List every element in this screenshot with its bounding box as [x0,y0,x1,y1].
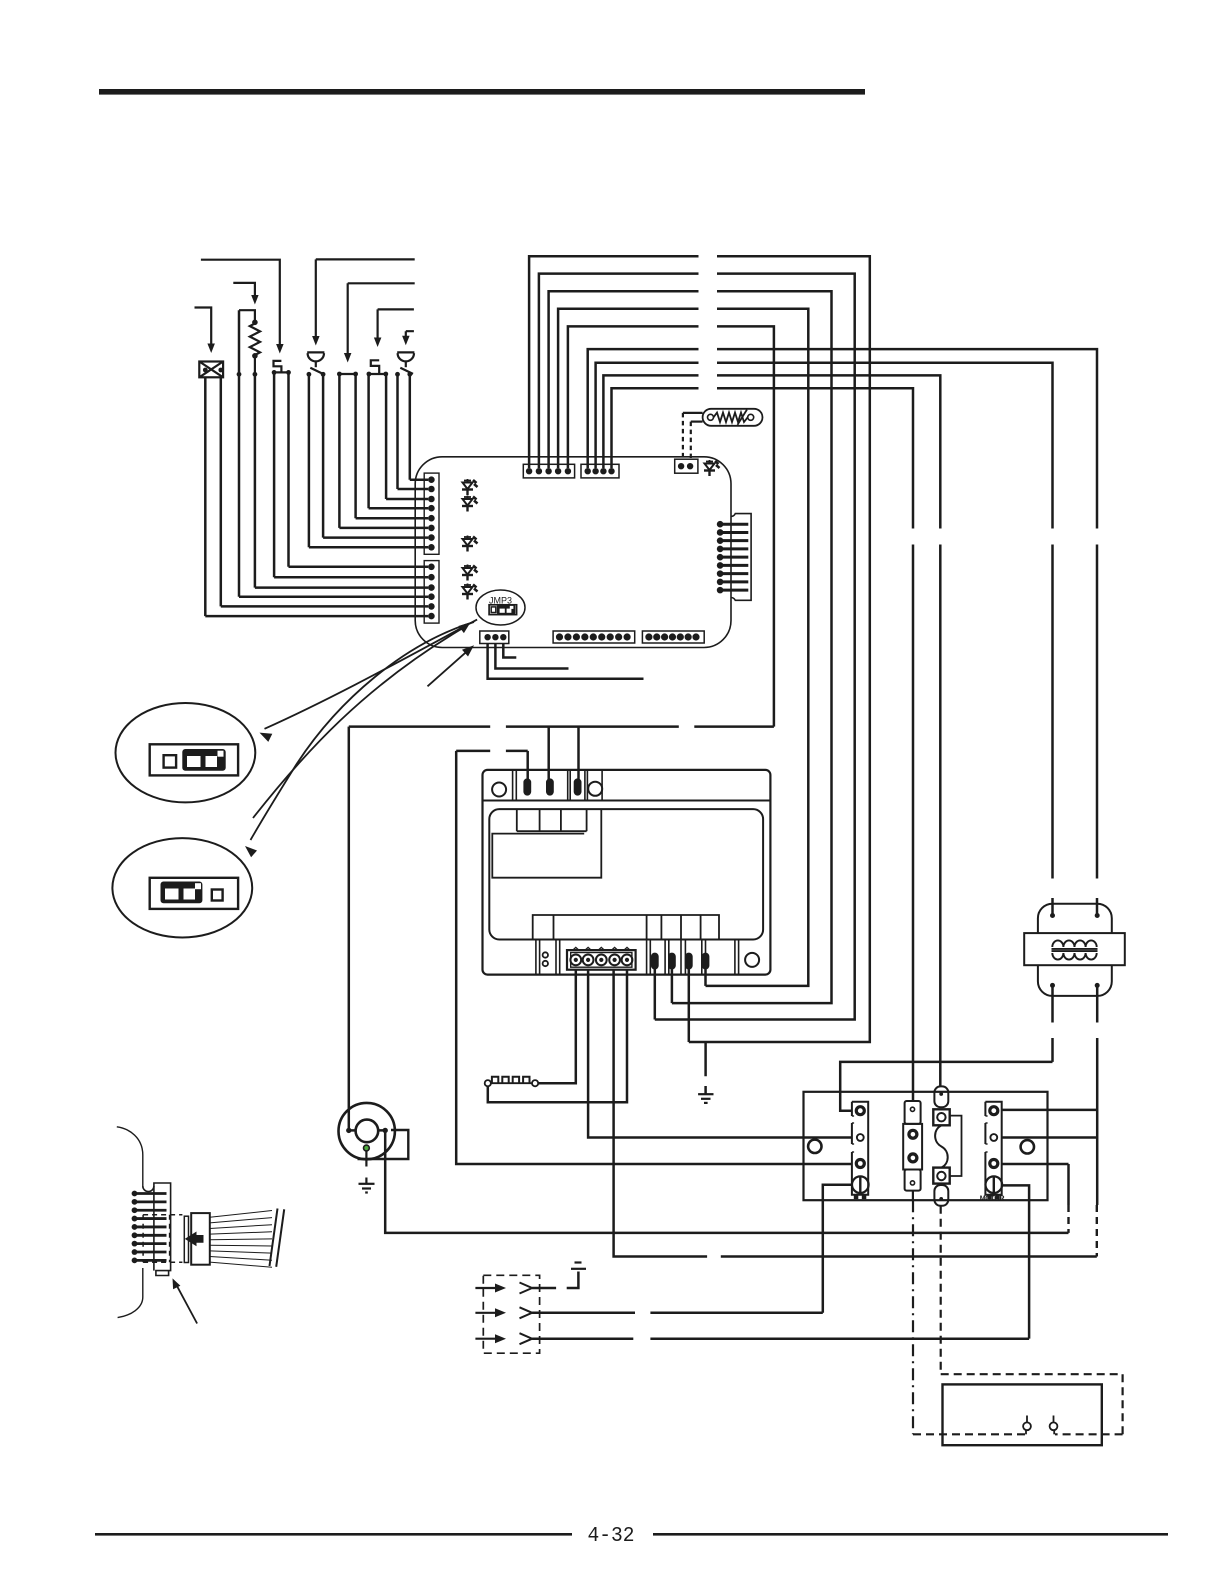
wire V1 lead B [220,377,223,606]
wire PS1-A to J1 pin8 [309,546,428,549]
ground branch from S4 wire [704,1042,707,1094]
mating plug body [184,1216,188,1262]
LED D2 [462,496,478,512]
harness break slashes [270,1209,278,1267]
wire W9: J4.4 to fuse block middle pole top [612,388,914,1102]
wire blower line riser [1067,1164,1070,1205]
page header rule [99,89,865,95]
wire right pole top to transformer drop [1002,1109,1097,1112]
contactor pole P1 (left) [852,1102,868,1195]
LED D3 [462,536,478,552]
wire B1 branch to module slot S2b [577,727,580,780]
wire blower left terminal [349,1129,356,1132]
wire TB1.2 to contactor left pole mid [588,970,852,1138]
module slot S4 [686,954,692,969]
sensor terminal pair J5 [339,373,355,375]
contactor K1 mounting hole left [808,1140,821,1153]
wire PS2-B to J1 pin1 [410,478,428,481]
wire W3: J3.3 to module slot S2 [549,291,832,1003]
wire J5 lead B [354,374,357,518]
wire S1 lead A [273,372,276,577]
LC1 contact A [1023,1422,1031,1430]
dashed control run from fuse F1 bottom [940,1206,942,1374]
wire S2 lead B [385,374,388,499]
LC1 contact B [1050,1422,1058,1430]
wire R1-A to J2 pin4 [239,595,428,598]
footer rule left [95,1533,572,1536]
ignition module M1 outline [483,770,771,975]
connector J10 (7-pin, board bottom) [642,631,704,643]
module M1 terminal cells bottom [533,915,719,940]
wire right pole mid to transformer drop [1002,1136,1097,1139]
wire module slot S4 to W1 [688,968,691,1042]
connector J9 (9-pin, board bottom) [553,631,635,643]
wire PS1-B to J1 pin7 [323,536,428,539]
flame sensor resistor R1 [239,310,255,322]
LED D6 [704,460,720,476]
arrow to flame sensor R1 [233,283,255,297]
wire field GND to ground [532,1272,578,1289]
module M1 relay cells [492,809,601,878]
curved arrow to callout E1 [265,620,478,729]
ground symbol GND2 [359,1183,375,1185]
connector J1 (8-pin, board left) [424,473,439,554]
wire T1 bottom-right drop [1096,985,1099,1205]
blower right terminal to contactor [383,1128,388,1133]
connector J8 (3-pin, board bottom) [480,631,509,644]
footer rule right [653,1533,1168,1536]
wire right pole screw to field L2 [1002,1185,1029,1338]
limit control box LC1 [943,1384,1102,1445]
harness wires fan [210,1211,272,1268]
wire field L2 to contactor [532,1337,1029,1340]
module M1 status holes [543,952,548,957]
wire W4: J3.4 to module slot S5 [558,309,808,986]
module M1 mounting hole bottom-right [745,953,759,967]
wire V1 lead A [204,377,207,616]
fuse holder P2 (middle pole) [903,1101,922,1191]
wire PS2 lead B [409,374,412,479]
terminal block TB1 (5 screws) [567,950,636,970]
LED D1 [462,479,478,495]
wire S2-A to J1 pin4 [369,507,429,510]
module M1 bottom strip dividers [536,940,739,975]
jumper detail callout E1 [115,703,255,802]
wire FL1 to J6 pin2 (dashed) [691,421,703,423]
flame-rod link FL1 (pill with resistor) [703,409,763,426]
wire PS2-A to J1 pin2 [398,488,429,491]
connector J4 (4-pin, board top) [581,464,619,478]
wire PS2 lead A [396,374,399,489]
arrow to pressure switch PS1 [316,259,415,337]
ground symbol GND3 [571,1268,586,1270]
field wiring box FW1 (dashed) [483,1275,539,1353]
module M1 mounting hole top-left [492,783,506,797]
gas valve V1 (bowtie symbol) [199,362,223,378]
module M1 top strip dividers [513,770,603,801]
limit switch S1 (flag symbol) [274,361,282,373]
wire R1 lead B [254,374,257,587]
curved arrow to callout E2 [251,622,475,840]
module M1 top strip [483,800,771,802]
blower motor BM1 [339,1103,409,1159]
straight arrow to J8 [428,651,468,686]
wire module slot S5 to W4 [704,968,707,986]
arrow to limit switch S1 [201,260,280,346]
igniter HSI1 [532,1080,538,1086]
fuse F1 bracket [950,1116,962,1176]
wire PS1 lead A [308,374,311,547]
wire W6: J4.1 to transformer T1 secondary right [588,349,1097,915]
wire J8.3 stub [503,644,516,658]
module slot S1 [652,954,658,969]
wire W8: J4.3 to fuse F1 top [603,375,940,1086]
wire module slot S1 to W2 [654,968,657,1019]
arrow to pressure switch PS2 [406,331,414,337]
wire field L1 to contactor [532,1312,823,1315]
wire igniter left to TB1.5 [488,970,627,1102]
blower ground wire [364,1145,370,1151]
bus wire B2 [456,750,528,753]
contactor K1 mounting hole right [1021,1140,1034,1153]
ground symbol GND1 [698,1093,713,1095]
wire S1-A to J2 pin2 [274,576,428,579]
wire blower line riser dashed tail [1067,1205,1069,1233]
wire S1-B to J2 pin1 [289,566,429,569]
wire S2 lead A [367,374,370,508]
wire T1 drop dashed tail [1096,1205,1098,1257]
contactor K1 mounting plate [804,1092,1048,1200]
wire left pole screw to field L1 [823,1185,852,1313]
contactor pole P3 (right) [985,1102,1001,1195]
dashed control run from fuse block middle pole [912,1191,914,1201]
transformer T1 [1024,904,1125,996]
module slot S2 [669,954,675,969]
wire J5-B to J1 pin5 [356,517,429,520]
jumper detail callout E2 [112,838,252,937]
connector J2 (6-pin, board left) [424,561,439,624]
pressure switch PS2 [397,352,414,374]
LED D4 [462,565,478,581]
wire module slot S2 to W3 [671,968,674,1003]
harness panel edge (thin curve) [117,1127,143,1186]
straight arrow to JMP3 [253,628,463,818]
module slot S1b [547,780,553,795]
field line L1 entry [475,1312,496,1314]
svg-text:4-32: 4-32 [588,1525,635,1548]
wire W5: J3.5 to 24V bus [568,326,774,726]
wire W1: J3.1 to module slot S4 [529,256,870,1042]
module M1 inner cover [489,809,763,939]
wire S1 lead B [287,372,290,566]
wire W7: J4.2 to transformer T1 secondary left [596,363,1053,916]
wire B2 to module slot S0 [526,751,529,780]
connector J3 (5-pin, board top) [523,464,574,478]
wire S2-B to J1 pin3 [386,498,428,501]
wire right pole lower to blower line [1002,1163,1069,1166]
wire J5 lead A [338,374,341,528]
wire B2 to inducer circuit (left drop) [456,751,852,1164]
wire TB1.1 to igniter right [538,970,576,1083]
wire PS1 lead B [322,374,325,537]
wire R1 lead A [238,310,241,597]
wire R1-B to J2 pin3 [255,586,428,589]
arrow to gas valve V1 [195,308,212,346]
svg-text:MOTOR: MOTOR [980,1196,1005,1203]
rollout switch S2 (flag symbol) [371,360,379,374]
wire FL1 to J6 pin1 (dashed) [683,412,703,414]
wire V1-A to J2 pin6 [205,615,428,618]
wire J5-A to J1 pin6 [339,527,428,530]
wire B1 branch to module slot S1b [547,727,550,780]
wire TB1.4 to transformer drop [614,970,1097,1257]
wire T1 bottom-left to K1 bus (dash break) [1051,985,1054,1062]
wire B1 to blower motor [348,727,351,1128]
control board U1 outline [415,457,731,648]
arrow to terminal pair J5 [348,283,415,354]
wire J8.2 stub [495,644,568,669]
field line L2 entry [475,1338,496,1340]
connector J7 (9-pin edge connector, board right) [731,514,751,601]
pressure switch PS1 [307,352,324,374]
wire W2: J3.2 to module slot S1 [539,274,855,1020]
LED D5 [462,584,478,600]
fuse F1 (center, with holder clips) [933,1086,949,1205]
harness connector P10 pins [132,1191,138,1197]
field line GND entry [475,1287,496,1289]
module slot S0 [525,780,531,795]
arrow to harness connector [176,1284,197,1324]
module slot S5 [703,954,709,969]
wire J8.1 stub [488,644,644,679]
wire K1 line-side jumper bus [840,1062,1052,1111]
harness connector P10 body [143,1183,171,1276]
mating plug dashed outline [143,1215,182,1263]
wire V1-B to J2 pin5 [221,605,428,608]
plug insertion arrow [185,1232,204,1247]
arrow to rollout switch S2 [378,309,414,339]
connector J6 (2-pin, board top right) [675,459,698,473]
module slot S2b [575,780,581,795]
jumper JMP3 callout on board [476,590,525,625]
bus wire B1 (24V common) [349,725,774,728]
module M1 mounting hole top-mid [588,782,602,796]
